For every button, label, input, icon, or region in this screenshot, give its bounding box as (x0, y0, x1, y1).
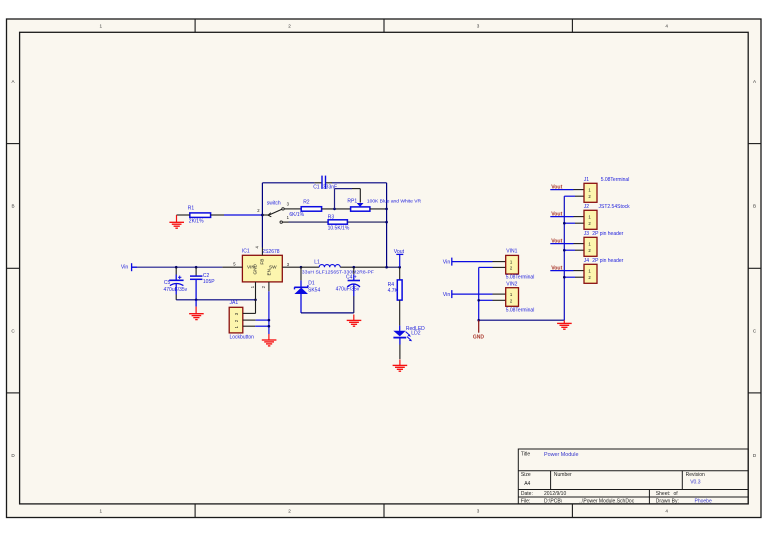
wire RP1 to feedback vertical (370, 208, 387, 210)
svg-text:2P pin header: 2P pin header (592, 231, 623, 237)
wire Vout to J2 pin1 (550, 216, 573, 218)
junction J4 pin2 (563, 276, 566, 279)
pin 1 VIN1 (493, 261, 506, 263)
resistor R4 (388, 280, 402, 300)
svg-text:..\Power Module.SchDoc: ..\Power Module.SchDoc (579, 498, 635, 504)
ground under C4 (347, 315, 362, 327)
capacitor C2 (190, 267, 215, 300)
svg-text:5.08Terminal: 5.08Terminal (601, 177, 630, 183)
svg-text:2: 2 (288, 23, 291, 28)
svg-text:GND: GND (253, 263, 258, 274)
junction VIN2 pin2 (477, 299, 480, 302)
svg-text:Number: Number (554, 472, 572, 478)
svg-text:4: 4 (665, 508, 668, 513)
wire Vin to VIN1 pin1 (452, 261, 493, 263)
wire Vin to IC1 pin 5 (132, 266, 137, 268)
svg-text:R1: R1 (188, 206, 195, 212)
junction C4 tap (353, 266, 356, 269)
wire R1 to switch junction (211, 214, 224, 216)
resistor R2 (289, 200, 321, 218)
wire SW node to L1 (301, 266, 319, 268)
junction EN pin1 (268, 325, 271, 328)
svg-text:Date:: Date: (521, 491, 533, 497)
svg-text:33uH SLF12565T-330M2R8-PF: 33uH SLF12565T-330M2R8-PF (302, 270, 374, 276)
op-amp IC1 regulator 2S2678 (233, 246, 289, 289)
svg-text:J4: J4 (584, 258, 590, 264)
svg-text:J2: J2 (584, 204, 590, 210)
svg-text:5.08Terminal: 5.08Terminal (506, 308, 535, 314)
pin 2 IC1 EN (268, 282, 270, 291)
power port Vin (VIN1) (443, 258, 452, 266)
svg-text:6K/1%: 6K/1% (289, 212, 304, 218)
inductor L1 (302, 260, 374, 276)
wire Vin to VIN2 pin1 (452, 293, 493, 295)
resistor R3 (328, 214, 350, 231)
junction R3 right (385, 221, 388, 224)
pin 3 IC1 (282, 266, 301, 268)
pin 5 IC1 (222, 266, 242, 268)
wire R2 to RP1 (322, 208, 351, 210)
pin 1 JA1 (243, 325, 255, 327)
svg-text:5.08Terminal: 5.08Terminal (506, 274, 535, 280)
pin 1 J4 (574, 270, 585, 272)
wire switch pin3 to R2 (294, 208, 302, 210)
pin 1 J1 (574, 189, 585, 191)
pin 1 IC1 GND down to JA1 (255, 282, 257, 314)
switch SPDT (257, 201, 293, 224)
pin 2 J2 (575, 222, 584, 224)
svg-text:Power Module: Power Module (544, 452, 578, 458)
junction ground rail left (477, 319, 480, 322)
svg-text:B: B (753, 204, 756, 209)
svg-text:VIN1: VIN1 (506, 248, 517, 254)
svg-text:C1: C1 (313, 184, 320, 190)
svg-text:2S2678: 2S2678 (262, 249, 279, 255)
svg-text:D1: D1 (308, 281, 315, 287)
junction SW node (300, 266, 303, 269)
pin 1 J3 (574, 243, 585, 245)
junction switch common (261, 214, 264, 217)
wire ground rail bottom (479, 319, 565, 321)
capacitor C1 (313, 176, 337, 191)
svg-text:Sheet:: Sheet: (656, 491, 670, 497)
pin 2 J1 (575, 195, 584, 197)
wire JA1 pin2 to EN net (256, 319, 269, 321)
connector J3 (584, 231, 624, 256)
svg-text:Vin: Vin (443, 292, 451, 298)
svg-text:2012/9/10: 2012/9/10 (544, 491, 566, 497)
potentiometer RP1 (347, 199, 421, 212)
svg-text:Vin: Vin (121, 265, 129, 271)
pin 4 IC1 (261, 248, 263, 256)
svg-text:J3: J3 (584, 231, 590, 237)
svg-text:R2: R2 (303, 200, 310, 206)
wire J1 pin2 to chain (564, 195, 575, 197)
ground at R1 (169, 215, 184, 228)
svg-text:Size: Size (521, 472, 531, 478)
svg-text:470uF/35v: 470uF/35v (336, 287, 360, 293)
svg-text:GND: GND (473, 335, 485, 341)
svg-text:105P: 105P (203, 279, 215, 285)
svg-text:V0.3: V0.3 (690, 480, 701, 486)
svg-text:Vin: Vin (443, 260, 451, 266)
pin 1 J2 (574, 216, 585, 218)
wire feedback loop top (C1 branch) (262, 183, 386, 267)
wire R4 to LED (399, 300, 401, 326)
pin 1 VIN2 (493, 293, 506, 295)
connector J2 (584, 204, 630, 229)
junction at C2 top (195, 266, 198, 269)
junction J3 pin2 (563, 249, 566, 252)
diode D1 SK54 (294, 267, 320, 313)
svg-text:D:\PCB\: D:\PCB\ (544, 498, 563, 504)
svg-text:4.7K: 4.7K (388, 288, 399, 294)
junction wiper tap (333, 208, 336, 211)
pin 2 VIN2 (493, 299, 506, 301)
wire J3 pin2 to chain (564, 249, 575, 251)
wire LED to ground (399, 338, 401, 345)
svg-text:100K Blue and White VR: 100K Blue and White VR (367, 199, 422, 205)
svg-text:Phoebe: Phoebe (695, 498, 712, 504)
junction RP1 right (385, 208, 388, 211)
power port Vin (VIN2) (443, 290, 452, 298)
wire ground rail under C5 C2 (176, 299, 255, 301)
connector VIN1 (506, 248, 535, 280)
svg-text:1: 1 (100, 508, 103, 513)
svg-text:switch: switch (267, 201, 281, 207)
wire L1 to Vout node (340, 266, 386, 268)
svg-text:IC1: IC1 (242, 248, 250, 254)
wire J4 pin2 to chain (564, 276, 575, 278)
wire Vout to J1 pin1 (550, 189, 573, 191)
svg-text:EN: EN (266, 269, 271, 276)
svg-text:SK54: SK54 (308, 287, 320, 293)
svg-text:SW: SW (269, 264, 277, 269)
svg-text:R3: R3 (328, 214, 335, 220)
svg-text:2: 2 (288, 508, 291, 513)
svg-text:C2: C2 (203, 273, 210, 279)
wire J2 pin2 to chain (564, 222, 575, 224)
title block (518, 449, 748, 504)
svg-text:4: 4 (665, 23, 668, 28)
junction rail C2 (195, 299, 198, 302)
pin 3 JA1 (243, 312, 256, 314)
svg-text:1: 1 (100, 23, 103, 28)
wire Vout to J4 pin1 (550, 270, 573, 272)
capacitor C5 (164, 267, 188, 300)
wire EN vertical to ground (268, 291, 270, 334)
svg-text:of: of (674, 491, 679, 497)
ground right rail (557, 320, 572, 329)
pin 2 JA1 (243, 319, 256, 321)
svg-text:RP1: RP1 (347, 199, 357, 205)
svg-text:J1: J1 (584, 177, 590, 183)
wire ground to R1 (177, 214, 190, 216)
junction EN pin2 (268, 319, 271, 322)
wire RP1 wiper (335, 189, 361, 209)
wire VIN ground vertical (478, 267, 480, 320)
pin 2 J4 (575, 276, 584, 278)
svg-text:Title: Title (521, 452, 530, 458)
svg-text:470uF/35v: 470uF/35v (164, 287, 188, 293)
ground under input rail (189, 300, 204, 320)
pin 2 VIN1 (493, 266, 506, 268)
svg-text:JA1: JA1 (230, 300, 239, 306)
wire Vout to J3 pin1 (550, 243, 573, 245)
connector J1 (584, 177, 630, 202)
svg-text:3: 3 (477, 508, 480, 513)
svg-text:A4: A4 (524, 481, 530, 487)
svg-text:L1: L1 (314, 260, 320, 266)
wire R3 to feedback vertical (347, 221, 386, 223)
svg-text:Revision: Revision (686, 472, 705, 478)
svg-text:B: B (11, 204, 14, 209)
capacitor C4 (336, 267, 360, 313)
resistor R1 (188, 206, 211, 225)
svg-text:C4 +: C4 + (346, 275, 357, 281)
wire Vout node to R4 (399, 267, 401, 280)
wire J pin2 chain vertical (563, 196, 565, 320)
junction Vout (398, 266, 401, 269)
connector VIN2 (506, 281, 535, 313)
wire JA1 pin1 to EN net (255, 325, 269, 327)
svg-text:Drawn By:: Drawn By: (656, 498, 679, 504)
svg-text:Lockbutton: Lockbutton (230, 335, 255, 341)
junction feedback tap (385, 266, 388, 269)
svg-text:File:: File: (521, 498, 530, 504)
ground under JA1 (262, 334, 277, 346)
LED LD2 (393, 326, 425, 342)
pin 2 J3 (575, 249, 584, 251)
wire VIN2 pin2 to ground net (479, 299, 493, 301)
ground under LED (393, 360, 408, 372)
wire switch pin1 to R3 (289, 221, 329, 223)
power port Vin (left) (121, 263, 132, 271)
connector J4 (584, 258, 624, 283)
svg-text:LD2: LD2 (411, 331, 420, 337)
svg-text:VIN2: VIN2 (506, 281, 517, 287)
wire VIN1 pin2 to ground net (479, 266, 493, 268)
power port GND (473, 320, 485, 340)
svg-text:FB: FB (259, 259, 264, 265)
svg-text:3: 3 (477, 23, 480, 28)
svg-text:10.5K/1%: 10.5K/1% (328, 225, 350, 231)
junction rail GND pin (254, 299, 257, 302)
connector JA1 (229, 300, 254, 341)
junction J2 pin2 (563, 222, 566, 225)
svg-text:2P pin header: 2P pin header (592, 258, 623, 264)
svg-text:JST2.54Stock: JST2.54Stock (599, 204, 631, 210)
wire rail D1 to C4 ground (301, 312, 354, 314)
svg-text:C5: C5 (164, 280, 171, 286)
junction at C5 top (175, 266, 178, 269)
wire switch junction down to IC1 FB pin (261, 215, 263, 248)
svg-text:2K/1%: 2K/1% (189, 218, 204, 224)
power port Vout (above R4) (394, 249, 405, 267)
